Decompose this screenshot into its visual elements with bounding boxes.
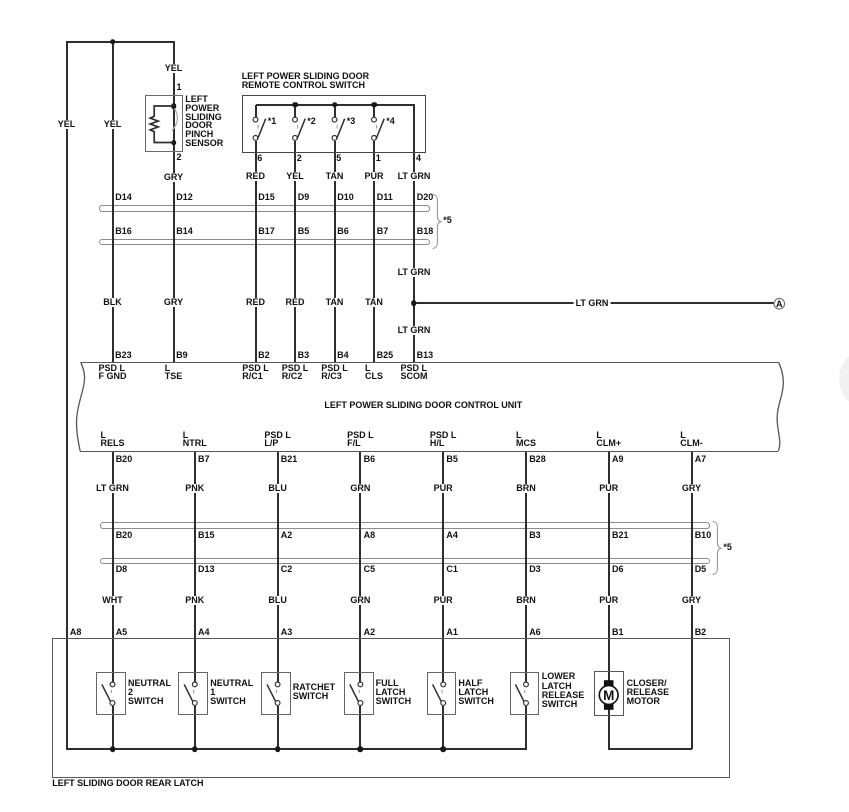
label pin 6 remote <box>257 154 262 163</box>
label pin D14 <box>115 193 132 202</box>
label PNK lower color 1 <box>183 484 206 493</box>
label pin C1 bar row 2 <box>446 565 458 574</box>
control unit top edge <box>81 362 779 363</box>
label pin B15 bar row <box>198 531 215 540</box>
label pin D10 <box>337 193 354 202</box>
label net name SCOM <box>401 364 428 380</box>
label pin D8 bar row 2 <box>116 565 128 574</box>
switch half latch contacts <box>433 682 446 705</box>
label LT GRN upper color <box>396 172 433 181</box>
junction pinch sensor top <box>171 103 177 109</box>
label pin B2 control unit top <box>258 351 270 360</box>
label TAN upper color <box>324 172 346 181</box>
label YEL upper color <box>284 172 306 181</box>
box latch switch 2 <box>178 672 208 716</box>
label pin B23 control unit top <box>115 351 132 360</box>
wire column L7 control unit to motor <box>608 451 610 681</box>
label pin B7 <box>377 227 389 236</box>
label net name R/C3 <box>321 364 348 380</box>
label pin D13 bar row 2 <box>198 565 215 574</box>
wire column L5 control unit to switch <box>442 451 444 682</box>
label *5 lower <box>723 543 732 552</box>
box remote control switch <box>242 95 426 153</box>
label PUR lower color 1 <box>597 484 620 493</box>
wire remote switch stub col E YEL/RED <box>294 105 296 117</box>
label pin A5 rear latch <box>116 628 128 637</box>
label control unit title <box>324 401 522 410</box>
label WHT lower color 2 <box>100 596 125 605</box>
label GRY col C <box>162 173 185 182</box>
box left power sliding door pinch sensor <box>145 95 183 152</box>
switch neutral 1 contacts <box>184 682 197 705</box>
label pin B16 <box>115 227 132 236</box>
junction remote bus G <box>371 102 377 108</box>
box closer/release motor <box>594 671 624 716</box>
label pin D3 bar row 2 <box>529 565 541 574</box>
label GRN lower color 1 <box>348 484 372 493</box>
label *5 upper <box>443 216 452 225</box>
label BLU lower color 1 <box>266 484 289 493</box>
control unit bottom edge <box>80 451 778 452</box>
switch remote control *3 <box>332 117 345 140</box>
label full latch switch name <box>376 679 412 706</box>
label pin B6 <box>337 227 349 236</box>
control unit wavy left edge <box>76 362 84 451</box>
resistor pinch sensor loop <box>150 106 173 143</box>
label pin D9 <box>298 193 310 202</box>
label net name CLM- <box>680 431 703 447</box>
connector pass-through bar lower 1 <box>100 522 710 528</box>
wire remote switch bus <box>256 104 415 106</box>
label pin B14 <box>176 227 193 236</box>
label pin 1 pinch <box>177 83 182 92</box>
label remote switch title line1 <box>242 72 370 81</box>
junction rear bus col 2 <box>192 747 198 753</box>
label pin D20 <box>417 193 434 202</box>
wire rear latch ground bus <box>66 748 528 750</box>
label rear latch box name <box>52 779 203 788</box>
label net name CLS <box>365 364 383 380</box>
label LT GRN above branch <box>396 268 433 277</box>
junction rear bus col 1 <box>110 747 116 753</box>
label net name F/L <box>347 431 374 447</box>
label GRY mid color <box>162 298 185 307</box>
junction rear bus col 4 <box>358 747 364 753</box>
label pin B5 <box>298 227 310 236</box>
wire column D RED switch to control unit <box>255 141 257 363</box>
label pin A1 rear latch <box>446 628 458 637</box>
label closer/release motor name <box>627 679 670 707</box>
label PUR lower color 2 <box>432 596 455 605</box>
label switch label *1 <box>268 117 277 126</box>
label GRN lower color 2 <box>348 596 372 605</box>
label pin B7 control unit bottom <box>198 455 210 464</box>
label pin B28 control unit bottom <box>529 455 546 464</box>
bracket *5 upper connector group <box>433 194 441 248</box>
junction pinch sensor bottom <box>171 140 177 146</box>
label half latch switch name <box>458 679 494 706</box>
wire switch 3 bottom lead <box>277 706 279 750</box>
label pin B17 <box>258 227 275 236</box>
label pin B5 control unit bottom <box>446 455 458 464</box>
switch remote control *2 <box>293 117 306 140</box>
wire remote switch stub col G PUR <box>373 105 375 117</box>
motor M closer/release <box>599 680 618 710</box>
label net name MCS <box>516 431 536 447</box>
label net name H/L <box>430 431 457 447</box>
label net name R/C2 <box>282 364 309 380</box>
wire top bus YEL <box>66 41 175 43</box>
bracket *5 lower connector group <box>713 521 721 574</box>
box latch switch 4 <box>344 672 374 716</box>
label GRY lower color 1 <box>680 484 703 493</box>
label RED mid color <box>244 298 267 307</box>
wire remote switch stub col D RED <box>255 105 257 117</box>
label BLK mid color <box>101 298 124 307</box>
label pin D12 <box>176 193 193 202</box>
label pin D6 bar row 2 <box>612 565 624 574</box>
junction rear bus col 5 <box>440 747 446 753</box>
label pin A8 rear latch <box>70 628 82 637</box>
label PUR upper color <box>362 172 385 181</box>
switch remote control *4 <box>372 117 385 140</box>
label pin 5 remote <box>336 154 341 163</box>
label LT GRN below branch <box>396 326 433 335</box>
label pin B6 control unit bottom <box>364 455 376 464</box>
wire motor bottom lead <box>608 709 610 750</box>
wire column L4 control unit to switch <box>359 451 361 682</box>
label TAN mid color <box>363 298 385 307</box>
switch neutral 2 contacts <box>102 682 115 705</box>
label remote switch title line2 <box>242 81 365 90</box>
label pin 4 remote <box>416 154 421 163</box>
label lower latch release switch name <box>542 672 585 709</box>
wire column B upper (YEL/BLK) <box>112 41 114 363</box>
label pin A4 rear latch <box>198 628 210 637</box>
node A circle <box>774 298 785 309</box>
wire column G PUR switch to control unit <box>373 141 375 363</box>
label pin 1 remote <box>376 154 381 163</box>
decorative gray circle right edge <box>839 349 849 410</box>
label pin B9 control unit top <box>176 351 188 360</box>
wire column L3 control unit to switch <box>277 451 279 682</box>
label pin B18 <box>417 227 434 236</box>
wire switch 1 bottom lead <box>112 706 114 750</box>
junction top bus <box>110 39 116 45</box>
label YEL col B <box>102 120 124 129</box>
label pin A6 rear latch <box>529 628 541 637</box>
box latch switch 1 <box>96 672 126 716</box>
label pin B1 rear latch <box>612 628 624 637</box>
wire YEL feed left column A <box>66 41 68 750</box>
label pin B25 control unit top <box>377 351 394 360</box>
switch blade pinch sensor <box>172 109 178 131</box>
switch lower latch release contacts <box>515 682 528 705</box>
connector pass-through bar lower 2 <box>100 558 710 564</box>
wire column F TAN switch to control unit <box>334 141 336 363</box>
wire motor return bus <box>608 748 693 750</box>
label net name R/C1 <box>242 364 269 380</box>
label net name RELS <box>100 431 124 447</box>
label pin 2 pinch <box>177 153 182 162</box>
wire LT GRN branch to A <box>413 302 775 304</box>
box latch switch 3 <box>261 672 291 716</box>
label pin B13 control unit top <box>417 351 434 360</box>
wire column L2 control unit to switch <box>194 451 196 682</box>
label pin A8 bar row <box>364 531 376 540</box>
label pin B3 bar row <box>529 531 541 540</box>
label switch label *4 <box>386 117 395 126</box>
label PUR lower color 2 <box>597 596 620 605</box>
label pin B3 control unit top <box>298 351 310 360</box>
switch full latch contacts <box>350 682 363 705</box>
label pin A7 control unit bottom <box>695 455 707 464</box>
box left sliding door rear latch <box>52 638 731 777</box>
label pin B20 control unit bottom <box>116 455 133 464</box>
label net name L/P <box>264 431 291 447</box>
label pin A3 rear latch <box>281 628 293 637</box>
label RED upper color <box>244 172 267 181</box>
label pin A9 control unit bottom <box>612 455 624 464</box>
junction rear bus col 3 <box>275 747 281 753</box>
label YEL col C <box>163 64 185 73</box>
junction remote bus E <box>292 102 298 108</box>
wire switch 2 bottom lead <box>194 706 196 750</box>
wire column L6 control unit to switch <box>525 451 527 682</box>
label net name TSE <box>165 364 183 380</box>
svg-text:A: A <box>776 299 783 309</box>
label pin D5 bar row 2 <box>695 565 707 574</box>
label LT GRN inline <box>574 299 611 308</box>
label GRY lower color 2 <box>680 596 703 605</box>
label pin B21 bar row <box>612 531 629 540</box>
connector C/B pass-through bar upper 2 <box>99 239 430 245</box>
label PNK lower color 2 <box>183 596 206 605</box>
wire remote switch stub col F TAN <box>334 105 336 117</box>
label pin B10 bar row <box>695 531 712 540</box>
box latch switch 6 <box>510 672 540 716</box>
svg-text:M: M <box>603 688 614 703</box>
label ratchet switch name <box>293 683 335 701</box>
box latch switch 5 <box>427 672 457 716</box>
label neutral 2 switch name <box>128 679 171 706</box>
wire column E YEL/RED switch to control unit <box>294 141 296 363</box>
label pin B20 bar row <box>116 531 133 540</box>
label RED mid color <box>283 298 306 307</box>
label YEL col A <box>56 120 78 129</box>
label switch label *2 <box>307 117 316 126</box>
wire column C pinch sensor (YEL/GRY) <box>173 41 175 363</box>
label BRN lower color 2 <box>514 596 538 605</box>
label net name NTRL <box>183 431 207 447</box>
label switch label *3 <box>347 117 356 126</box>
label LT GRN lower color 1 <box>94 484 131 493</box>
control unit wavy right edge <box>777 362 783 451</box>
label pin B2 rear latch <box>695 628 707 637</box>
label pin A4 bar row <box>446 531 458 540</box>
connector C/B pass-through bar upper 1 <box>99 205 430 211</box>
label net name F GND <box>99 364 127 380</box>
label pin 2 remote <box>297 154 302 163</box>
label neutral 1 switch name <box>210 679 253 706</box>
label PUR lower color 1 <box>432 484 455 493</box>
switch remote control *1 <box>253 117 266 140</box>
label pin B21 control unit bottom <box>281 455 298 464</box>
label pin D15 <box>258 193 275 202</box>
wire column H LT GRN pin4 <box>413 105 415 363</box>
label pin A2 rear latch <box>364 628 376 637</box>
label TAN mid color <box>324 298 346 307</box>
switch ratchet contacts <box>267 682 280 705</box>
label pinch sensor name <box>185 95 223 148</box>
label net name CLM+ <box>596 431 621 447</box>
label BLU lower color 2 <box>266 596 289 605</box>
wire column L8 control unit to rear latch <box>691 451 693 749</box>
junction remote bus F <box>332 102 338 108</box>
label BRN lower color 1 <box>514 484 538 493</box>
label pin C5 bar row 2 <box>364 565 376 574</box>
wire column L1 control unit to switch <box>112 451 114 682</box>
wire switch 6 bottom lead <box>525 706 527 750</box>
junction LT GRN branch <box>411 301 417 307</box>
label pin D11 <box>377 193 393 202</box>
label pin A2 bar row <box>281 531 293 540</box>
wire switch 5 bottom lead <box>442 706 444 750</box>
label pin B4 control unit top <box>337 351 349 360</box>
label pin C2 bar row 2 <box>281 565 293 574</box>
wire switch 4 bottom lead <box>359 706 361 750</box>
